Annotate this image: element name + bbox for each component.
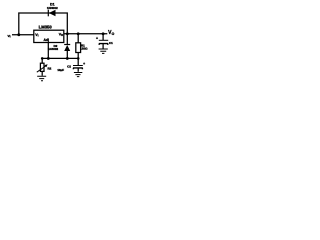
svg-text:LM350: LM350 bbox=[39, 24, 53, 29]
svg-text:10μF: 10μF bbox=[57, 68, 64, 72]
svg-text:1N4002: 1N4002 bbox=[47, 6, 58, 10]
svg-text:VI: VI bbox=[35, 33, 38, 38]
svg-text:VO: VO bbox=[108, 30, 115, 36]
svg-text:1N4002: 1N4002 bbox=[48, 47, 59, 51]
svg-text:VO: VO bbox=[59, 32, 63, 37]
svg-text:R2: R2 bbox=[47, 67, 51, 71]
svg-text:C1: C1 bbox=[109, 41, 113, 45]
svg-text:+: + bbox=[96, 36, 98, 40]
svg-text:Adj: Adj bbox=[43, 38, 49, 42]
svg-text:C2: C2 bbox=[67, 65, 71, 69]
svg-text:120Ω: 120Ω bbox=[80, 46, 88, 50]
svg-text:+: + bbox=[83, 62, 85, 66]
